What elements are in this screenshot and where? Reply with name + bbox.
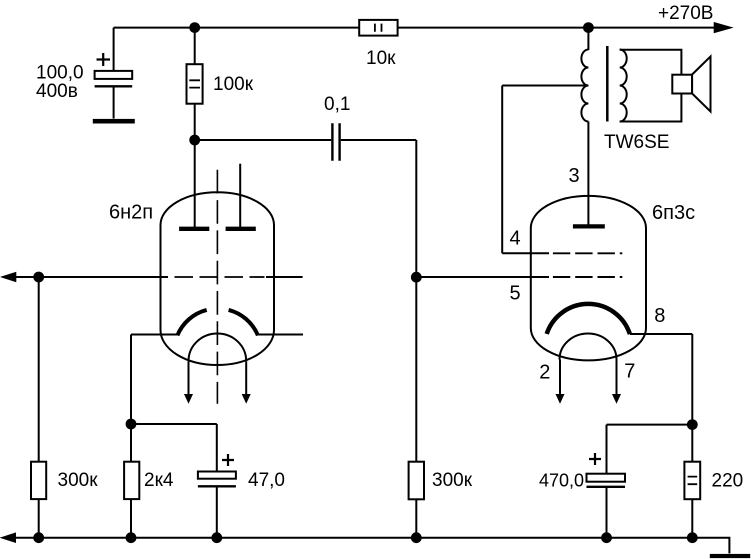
svg-text:300к: 300к	[432, 470, 473, 491]
wire R3 vertical	[38, 277, 40, 538]
wire rail to primary	[587, 28, 589, 50]
transformer T1 core	[606, 46, 609, 122]
wire grid V1 dashed	[175, 276, 265, 278]
wire grid stub right	[266, 276, 303, 278]
junction dot input / R3	[33, 272, 44, 283]
svg-text:2к4: 2к4	[144, 470, 174, 491]
tube V2 envelope 6p3s	[531, 196, 646, 361]
capacitor C1 100,0 400v wire	[113, 28, 115, 71]
wire C4 down	[606, 425, 608, 474]
svg-text:470,0: 470,0	[539, 471, 584, 491]
wire anode lead V1a	[194, 140, 196, 227]
capacitor C1 100,0 top plate	[95, 71, 133, 79]
input arrow left	[2, 272, 16, 281]
wire coupling cap right	[341, 139, 417, 141]
wire cathode2 node to C4	[607, 424, 693, 426]
tube V2 heater arc	[560, 334, 617, 360]
tube V2 anode plate	[573, 224, 605, 228]
svg-text:5: 5	[510, 283, 521, 305]
wire rail to R1	[194, 28, 196, 65]
ground bar under C1	[93, 119, 135, 124]
bottom rail arrow left	[1, 533, 15, 542]
tube V1 heater arc	[189, 334, 247, 362]
svg-text:+270В: +270В	[658, 3, 713, 24]
capacitor C2 0,1 plates	[332, 123, 339, 161]
wire C3 to rail	[216, 486, 218, 537]
svg-text:6п3с: 6п3с	[652, 202, 695, 224]
tube V2 screen grid dashed	[553, 252, 622, 254]
resistor R1 100k body	[187, 64, 203, 104]
wire R1 to anode node	[194, 104, 196, 140]
wire cathode down	[130, 335, 132, 425]
tube V2 cathode arc	[547, 304, 630, 334]
speaker LS1 cone	[692, 57, 710, 112]
resistor R2 power marks	[375, 24, 382, 32]
junction dot cathode2 node	[687, 419, 698, 430]
wire secondary top	[620, 50, 682, 75]
svg-text:4: 4	[510, 228, 521, 250]
wire R6 vertical	[691, 425, 693, 462]
tube V1 envelope 6n2p	[161, 192, 275, 365]
junction dot anode / coupling	[189, 135, 200, 146]
tube V1 cathode arc right	[229, 310, 258, 336]
speaker LS1 box	[672, 75, 692, 94]
node +270V arrow	[714, 23, 732, 33]
svg-text:47,0: 47,0	[248, 470, 285, 491]
tube V1 cathode arc left	[177, 310, 206, 336]
tube V1 anode plate a	[179, 227, 209, 231]
tube V1 anode plate b	[226, 227, 256, 231]
transformer T1 primary coil	[581, 50, 588, 122]
wire coupling vertical down to bottom rail	[415, 140, 417, 538]
capacitor C3 bottom plate	[198, 485, 236, 487]
wire control grid pin5	[416, 276, 549, 278]
transformer T1 secondary coil	[620, 50, 627, 122]
resistor R4 2k4 body	[124, 462, 139, 499]
junction dot rail / primary	[583, 22, 594, 33]
wire cathode node to C3	[131, 423, 217, 425]
wire screen grid pin4	[502, 252, 549, 254]
junction dot top rail / R1	[189, 22, 200, 33]
junction dots bottom rail	[33, 532, 44, 543]
svg-text:3: 3	[569, 165, 580, 187]
resistor R2 10k body (on rail)	[359, 20, 397, 36]
wire primary bottom to anode V2	[587, 122, 589, 227]
resistor R6 power marks	[688, 477, 698, 485]
resistor R3 300k body	[31, 462, 46, 499]
resistor R1 power marks	[189, 80, 200, 87]
capacitor C3 47,0 top plate	[198, 472, 236, 479]
wire coupling cap left	[195, 139, 332, 141]
resistor R6 220 body	[684, 462, 700, 500]
wire R4 vertical	[130, 424, 132, 538]
tube V1 heater arrow right	[245, 361, 247, 394]
svg-text:0,1: 0,1	[324, 94, 350, 115]
svg-text:400в: 400в	[36, 81, 78, 102]
svg-text:100к: 100к	[213, 74, 254, 95]
wire top B+ rail	[114, 27, 716, 29]
capacitor C4 470,0 top plate	[587, 474, 626, 482]
wire C4 to rail	[606, 487, 608, 538]
svg-text:220: 220	[712, 471, 744, 492]
wire V1 cathode out left	[131, 334, 178, 336]
junction dot grid2 node	[411, 272, 422, 283]
tube V1 center dashed line	[216, 170, 218, 404]
wire V1 cathode b stub right	[258, 334, 304, 336]
capacitor C3 plus sign	[222, 454, 234, 466]
capacitor C1 plus sign	[97, 53, 111, 66]
wire secondary bottom	[620, 94, 682, 122]
capacitor C4 plus sign	[589, 453, 601, 465]
tube V2 heater arrow left	[559, 360, 561, 395]
wire bottom rail	[14, 538, 729, 554]
svg-text:7: 7	[624, 361, 635, 383]
svg-text:TW6SE: TW6SE	[604, 132, 669, 153]
junction dot cathode node	[126, 419, 137, 430]
tube V2 control grid dashed	[553, 276, 622, 278]
tube V1 heater arrow left	[188, 361, 190, 394]
resistor R5 300k body	[409, 462, 424, 500]
wire pin8 down	[691, 334, 693, 425]
wire primary tap	[502, 85, 588, 87]
wire input line	[14, 276, 168, 278]
svg-text:2: 2	[539, 362, 550, 384]
wire R6 to rail	[691, 499, 693, 538]
wire tap down to screen	[501, 86, 503, 254]
svg-text:6н2п: 6н2п	[109, 202, 153, 224]
tube V2 heater arrow right	[616, 360, 618, 395]
svg-text:300к: 300к	[58, 470, 99, 491]
wire C1 to ground	[113, 86, 115, 118]
capacitor C1 bottom plate	[95, 85, 133, 87]
svg-text:8: 8	[654, 305, 665, 327]
capacitor C4 bottom plate	[587, 486, 626, 488]
svg-text:10к: 10к	[366, 48, 396, 69]
tube V1 anode b stub	[239, 164, 241, 227]
ground bar bottom right	[710, 554, 750, 558]
wire cathode pin8 out	[630, 333, 692, 335]
wire C3 down	[216, 424, 218, 472]
